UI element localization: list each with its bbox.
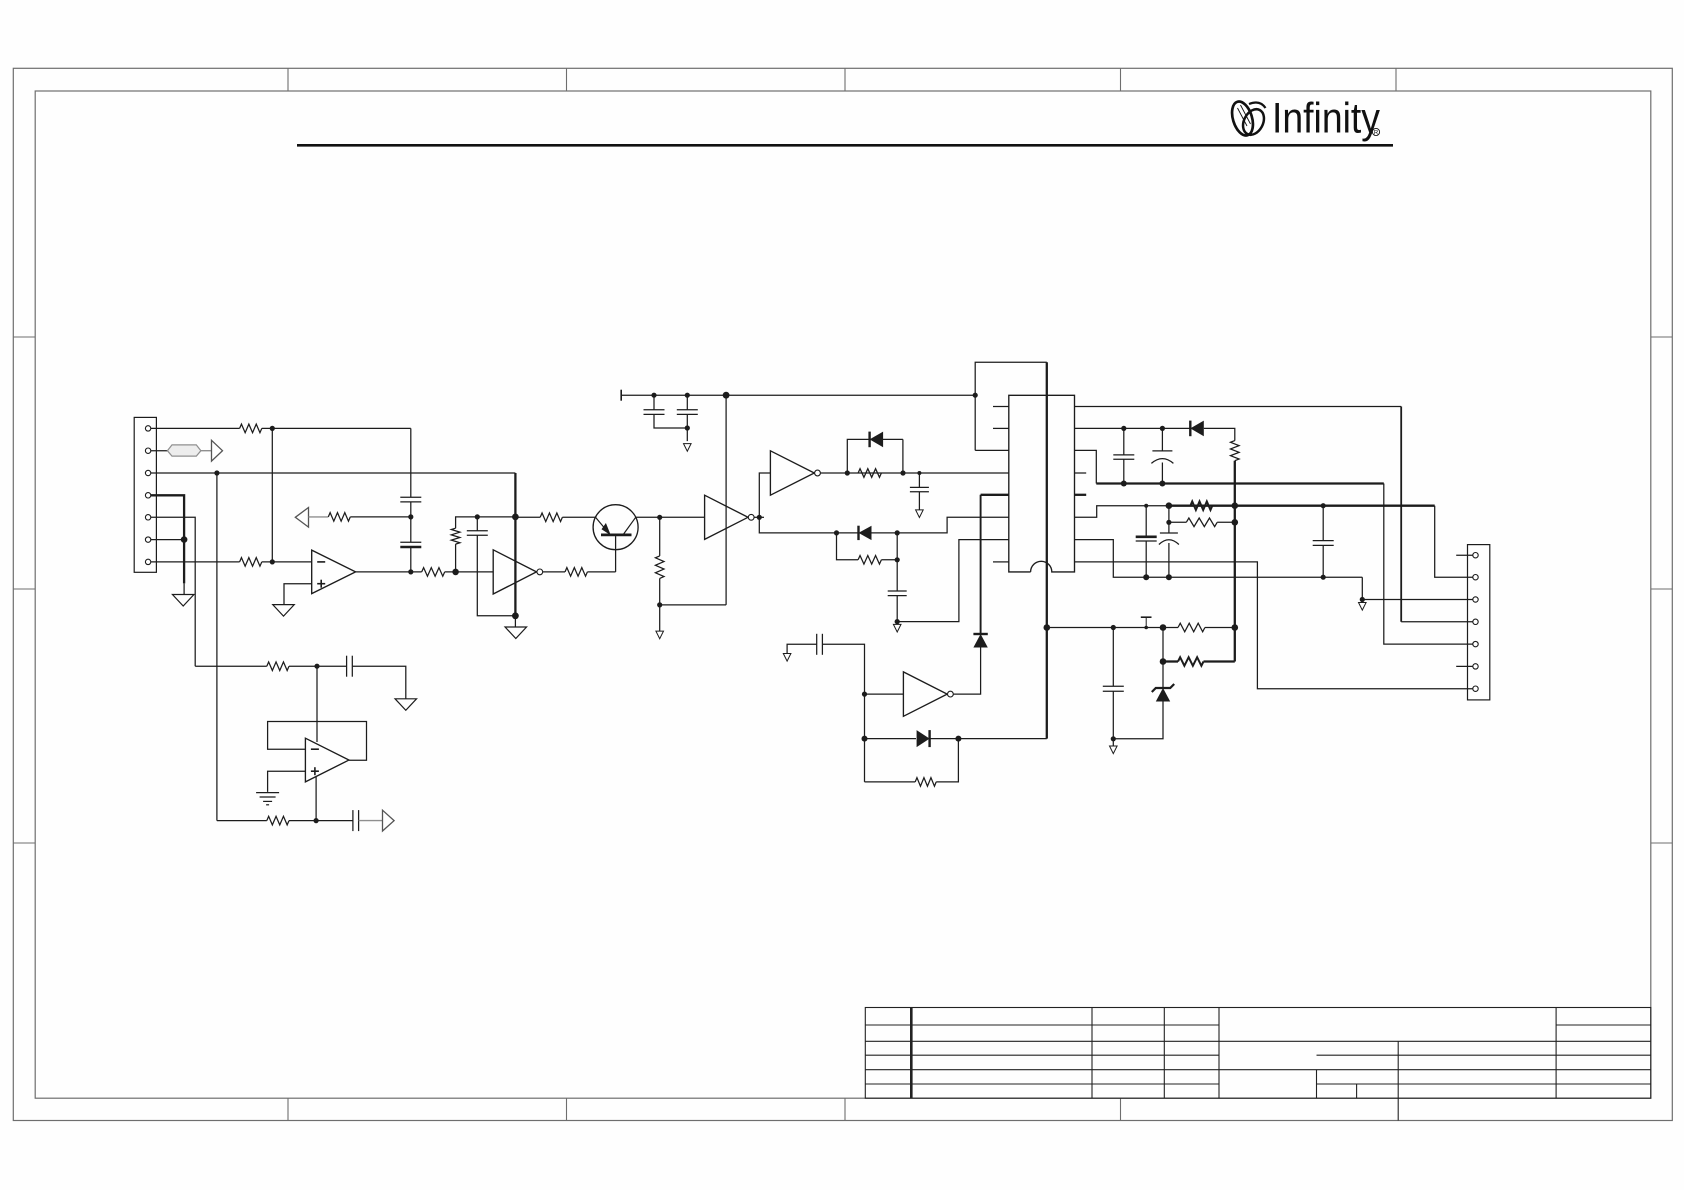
wire box to IC pin3 (975, 449, 1009, 451)
resistor R7 (540, 513, 562, 522)
node A junction (270, 426, 275, 431)
wire R1 to node A (262, 427, 411, 429)
resistor R8 vertical to gnd row (659, 517, 661, 556)
wire R2 to opamp U1 minus (262, 561, 312, 563)
capacitor C10 polarized (1161, 428, 1163, 451)
U4 feedback loop (268, 722, 367, 761)
wire R7 to Q1 (562, 516, 595, 518)
node C junction (657, 515, 662, 520)
op-amp U4 (305, 738, 349, 782)
wire node E down to D2 row (759, 517, 836, 533)
IC U3 body (1009, 395, 1075, 572)
junction D6 right (955, 736, 961, 742)
ground stub J1-4 (183, 583, 185, 594)
junction node D (657, 602, 662, 607)
grey link from flag (309, 516, 329, 518)
connector J2 pin 7 (1473, 686, 1478, 691)
title block middle verticals (1316, 1070, 1318, 1099)
buffer U2C bubble (815, 470, 821, 476)
ground arrow C8 (893, 624, 901, 632)
U4 plus to ground (268, 771, 306, 792)
capacitor C8 (896, 560, 898, 591)
wire node A down to pin7 net (271, 428, 273, 562)
ground arrow node D (656, 631, 664, 639)
inverter U2D (903, 672, 947, 716)
capacitor C5 (686, 395, 688, 410)
junction C12 522 (1166, 520, 1171, 525)
ground under C15 (395, 699, 417, 711)
junction cap C3 top (475, 514, 480, 519)
diode D2 (837, 532, 859, 534)
IC U3 stub left pin8 (993, 561, 1009, 563)
zener D5 net (1162, 628, 1164, 689)
IC pin7 right row (1075, 540, 1363, 578)
drop to J2-3 (1362, 577, 1473, 599)
ground under bold net (505, 627, 527, 639)
svg-text:R: R (1374, 130, 1379, 136)
connector J2 pin 5 (1473, 641, 1478, 646)
ground stub bold net (514, 616, 516, 627)
junction dropper 505 (1232, 502, 1239, 509)
ground under U1 plus (273, 605, 295, 617)
resistor R14 (1163, 627, 1178, 629)
wire R4 to cap string (350, 516, 411, 518)
wire D2 right to IC pin6 row (897, 517, 1009, 533)
buffer U2B (705, 495, 748, 539)
junction C17 top (1321, 503, 1326, 508)
earth ground U4 (256, 792, 279, 794)
junction C9 top (1121, 426, 1126, 431)
wire node G down (316, 666, 318, 742)
connector J1 pin 2 (145, 448, 150, 453)
buffer U2B bubble (748, 514, 754, 520)
wire row to bold node (477, 516, 515, 518)
junction D2 right (895, 530, 900, 535)
ground arrow C13 (1112, 739, 1114, 746)
border zone ticks left (13, 336, 35, 338)
wire J1-1 net down (410, 428, 412, 497)
junction C17 bottom (1321, 575, 1326, 580)
resistor R12 (1190, 501, 1212, 510)
input signal flag arrow (212, 440, 223, 461)
wire node E up to U2C input (759, 473, 770, 517)
title block row lines right column (1556, 1024, 1651, 1026)
junction D1 left (845, 470, 850, 475)
bold row 661 (1163, 660, 1178, 662)
buffer U2C (770, 451, 814, 495)
diode D1 loop (847, 439, 869, 473)
inverter U2D bubble (948, 691, 954, 697)
junction C9 bottom (1121, 481, 1127, 487)
diode D3 (1189, 421, 1191, 437)
node B junction (452, 569, 459, 576)
junction C11 top (1144, 504, 1148, 508)
resistor R10 bypass loop (837, 533, 859, 560)
resistor R4 (328, 513, 350, 522)
bold row 505 (1169, 505, 1435, 507)
op-amp U1 (312, 550, 356, 594)
connector J1 pin 6 (145, 537, 150, 542)
Infinity logo swirl (1228, 99, 1268, 138)
bold drop to J2-4 (1400, 407, 1402, 622)
diode D1 (868, 432, 870, 448)
wire C14 to node F (822, 644, 864, 782)
capacitor C2 bold lower plate (400, 541, 421, 543)
junction C13b (1111, 625, 1116, 630)
ground arrow C5 (684, 444, 692, 452)
junction pin7 row (270, 559, 275, 564)
wire J1-3 net down (216, 473, 218, 821)
ground stub node D (659, 605, 661, 631)
wire C15 to ground (352, 666, 406, 699)
resistor R1 (240, 424, 262, 433)
wire D3 to dropper (1204, 428, 1235, 440)
wire J1-3 row (151, 472, 516, 474)
connector J2 pin 2 (1473, 575, 1478, 580)
resistor R11 vertical (1231, 441, 1240, 461)
diode D6 row (865, 738, 917, 740)
wire D6 to case net (958, 738, 1046, 740)
case net thick vertical (1046, 362, 1048, 738)
registered trademark symbol (1372, 128, 1379, 135)
IC U3 stub left pin1 (993, 406, 1009, 408)
svg-text:Infinity: Infinity (1272, 96, 1381, 143)
resistor R3 (422, 568, 445, 577)
grey link to output flag (359, 820, 383, 822)
capacitor C9 (1123, 428, 1125, 455)
wire C3 bottom to gnd node (477, 535, 515, 616)
junction dropper 522 (1232, 519, 1239, 526)
rail junction drop (723, 392, 730, 399)
capacitor C16 (352, 810, 354, 831)
capacitor C3 (467, 530, 488, 532)
IC U3 bold pin5 left (981, 494, 1009, 496)
bold net dropper (1234, 461, 1236, 662)
junction C12 bottom (1166, 574, 1172, 580)
resistor R17 (267, 816, 289, 825)
junction R10 right (895, 557, 900, 562)
wire zener bottom (1113, 702, 1163, 739)
wire R6 to Q1 base (587, 571, 615, 573)
junction C11 bottom (1143, 574, 1149, 580)
junction zener bold tap (1160, 658, 1167, 665)
U4 output down (315, 777, 317, 821)
IC pin8 right row (1075, 562, 1473, 689)
connector J1 pin 7 (145, 559, 150, 564)
connector J1 pin 5 (145, 515, 150, 520)
border zone ticks top (287, 68, 289, 91)
J2 pin6 stub (1456, 665, 1473, 667)
row 820 wire (217, 820, 267, 822)
wire U2A out to R6 (543, 571, 565, 573)
IC U3 stub right pin4 (1075, 472, 1087, 474)
wire U2C output row (820, 472, 1008, 474)
node E junction (757, 515, 762, 520)
wire J1-7 to R2 (151, 561, 240, 563)
series cap C14 gnd side (787, 644, 817, 653)
junction gnd J2-3 (1360, 597, 1365, 602)
resistor R15 loop (865, 781, 916, 783)
rail junction at box (973, 393, 978, 398)
junction D2 left (834, 530, 839, 535)
ground arrow C14 (783, 654, 791, 662)
capacitor C14 (816, 634, 818, 655)
connector J2 pin 6 (1473, 664, 1478, 669)
title block row lines left section (865, 1024, 1219, 1026)
IC U3 stub left pin2 (993, 427, 1009, 429)
junction bold row 517 (512, 514, 519, 521)
wire U2D input (865, 693, 904, 695)
bold net J1-3 vertical (514, 473, 516, 616)
junction on J1-3 row (214, 470, 219, 475)
IC pin1 right row (1075, 406, 1402, 408)
junction C12 top (1166, 502, 1173, 509)
wire U1 output row (356, 571, 422, 573)
junction dropper 627 (1232, 624, 1239, 631)
resistor R9 (858, 469, 881, 478)
connector J2 (1468, 545, 1490, 700)
reference flag arrow left (295, 508, 308, 528)
wire U2D out to D4 net (953, 647, 980, 694)
resistor R5 vertical (455, 544, 457, 572)
wire row 666 (195, 665, 267, 667)
junction C4/C5 gnd (685, 425, 690, 430)
output signal flag (383, 810, 395, 831)
capacitor C4 (653, 395, 655, 410)
connector J1 (134, 417, 156, 572)
wire node D to rail drop (660, 604, 726, 606)
resistor R16 (267, 662, 289, 671)
wire rail to top box (975, 362, 1047, 450)
border zone ticks bottom (287, 1098, 289, 1120)
resistor R6 (565, 568, 587, 577)
junction pins 4-6 (181, 536, 188, 543)
rail junction C4 (651, 393, 656, 398)
junction zener top (1160, 624, 1167, 631)
junction C7 tap (917, 471, 921, 475)
drop to J2-2 (1435, 506, 1473, 578)
title rule line (297, 144, 1393, 147)
J2 pin1 stub (1456, 554, 1473, 556)
bold net pin5 vertical (980, 495, 982, 634)
wire J1-6 (151, 539, 184, 541)
capacitor C15 (346, 656, 348, 677)
net label hexagon (167, 445, 201, 456)
connector J1 pin 3 (145, 470, 150, 475)
ground symbol under J1-4 (172, 595, 194, 607)
wire into Q1 emitter (515, 516, 540, 518)
power rail stub tick (620, 390, 622, 401)
border zone ticks right (1651, 336, 1673, 338)
diode D4 (973, 633, 987, 635)
title block verticals (910, 1008, 913, 1099)
node F diode junction (862, 736, 868, 742)
junction C10 top (1160, 426, 1165, 431)
IC pin2 right row (1075, 427, 1191, 429)
wire C2 to U1 output (410, 547, 412, 572)
buffer U2A bubble (537, 569, 543, 575)
drop to J2-5 (1384, 484, 1473, 645)
junction case net 627 (1044, 624, 1051, 631)
bold row 483 (1096, 482, 1384, 484)
ground arrow C7 (916, 510, 924, 518)
wire Q1 base down (615, 536, 617, 572)
title block middle rows (1219, 1040, 1556, 1042)
test point T1 (1145, 617, 1147, 627)
connector J1 pin 4 (145, 493, 150, 498)
resistor R2 (240, 558, 262, 567)
capacitor C1 (400, 496, 421, 498)
junction mid cap string (408, 514, 413, 519)
junction C13 bottom (1111, 736, 1116, 741)
wire R3 to node B (445, 571, 494, 573)
junction node H (314, 818, 319, 823)
wire J1-5 (151, 517, 195, 666)
IC pin3 right step (1075, 450, 1097, 483)
IC U3 bold stub right pin5 (1075, 494, 1087, 496)
junction bold bottom (512, 612, 519, 619)
row 522 resistor R13 (1169, 521, 1186, 523)
capacitor C11 bold plate (1145, 506, 1147, 537)
capacitor C17 (1322, 506, 1324, 541)
wire J1-1 to R1 (151, 427, 240, 429)
zener D5 (1152, 684, 1174, 692)
rail drop vertical (725, 395, 727, 605)
wire Q1 collector to node C (636, 516, 705, 518)
title block frame (865, 1008, 1651, 1099)
node F input junction (862, 692, 867, 697)
wire gnd row to IC pin7 (897, 540, 1009, 622)
connector J2 pin 3 (1473, 597, 1478, 602)
grey link to input flag (201, 450, 212, 452)
junction D1 right (900, 470, 905, 475)
wire U1 plus to ground (284, 584, 312, 605)
capacitor C13 (1112, 628, 1114, 687)
power rail (621, 394, 975, 396)
row 627 (1047, 627, 1163, 629)
connector J2 pin 1 (1473, 553, 1478, 558)
rail junction C5 (685, 393, 690, 398)
ground arrow J2-3 (1359, 603, 1367, 611)
wire J1-2 to flag (151, 450, 168, 452)
buffer U2A (493, 550, 536, 594)
junction C8 gnd row (895, 619, 900, 624)
connector J1 pin 1 (145, 426, 150, 431)
capacitor C12 polarized (1168, 506, 1170, 533)
junction C10 bottom (1159, 481, 1165, 487)
transistor Q1 (593, 505, 638, 550)
IC pin6 right step (1075, 506, 1169, 518)
connector J2 pin 4 (1473, 619, 1478, 624)
junction U1 out / cap string (408, 569, 413, 574)
capacitor C7 (918, 473, 920, 487)
junction node G (314, 664, 319, 669)
wire J1-4 ground bold (151, 495, 184, 583)
wire C1 to C2 (410, 502, 412, 542)
